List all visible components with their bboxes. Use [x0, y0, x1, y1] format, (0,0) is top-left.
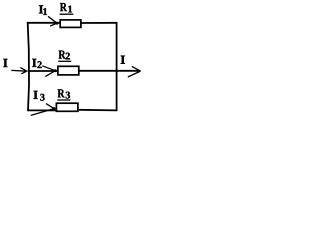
arrow I1 into R1	[48, 16, 57, 26]
label I (right output)	[121, 56, 125, 64]
underline of R3	[57, 99, 70, 101]
arrow I input (left)	[11, 67, 26, 73]
wire: top branch left segment	[27, 22, 60, 24]
wire: bottom branch right segment	[79, 109, 118, 112]
label I (left input)	[3, 59, 7, 67]
arrow I2 into R2	[42, 66, 55, 77]
resistor R3 body	[56, 103, 78, 111]
wire: middle branch from R2 through right bus to output arrow	[79, 70, 140, 72]
underline of R1	[60, 13, 74, 15]
label R1	[60, 3, 67, 11]
wire: right bus vertical	[116, 22, 118, 111]
label I2	[32, 59, 36, 67]
label I1	[39, 5, 43, 13]
parallel resistor circuit schematic	[0, 0, 145, 117]
underline of R2	[58, 60, 71, 62]
arrow I3 into R3	[31, 104, 54, 116]
resistor R1 body	[60, 20, 81, 28]
wire: middle branch from left bus to R2	[28, 70, 59, 72]
wire: top branch right segment	[81, 22, 118, 24]
resistor R2 body	[58, 66, 79, 75]
wire: bottom branch left segment	[27, 109, 56, 111]
arrow I output (right) head	[128, 66, 141, 77]
label R3	[58, 89, 65, 97]
label R2	[59, 51, 66, 59]
wire: left bus vertical	[28, 23, 29, 111]
label I3	[34, 91, 38, 99]
